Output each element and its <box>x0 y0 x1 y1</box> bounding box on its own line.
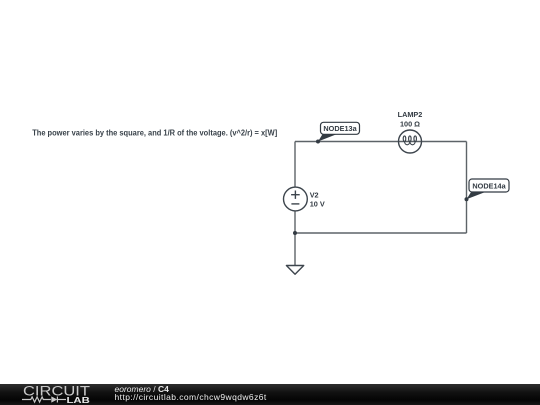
svg-text:10 V: 10 V <box>310 199 325 208</box>
svg-text:V2: V2 <box>310 191 319 200</box>
svg-text:LAB: LAB <box>67 395 90 405</box>
svg-text:NODE13a: NODE13a <box>323 124 357 133</box>
svg-text:NODE14a: NODE14a <box>472 182 506 191</box>
svg-text:The power varies by the square: The power varies by the square, and 1/R … <box>32 128 277 137</box>
svg-text:LAMP2: LAMP2 <box>398 110 423 119</box>
svg-text:100 Ω: 100 Ω <box>400 120 420 129</box>
